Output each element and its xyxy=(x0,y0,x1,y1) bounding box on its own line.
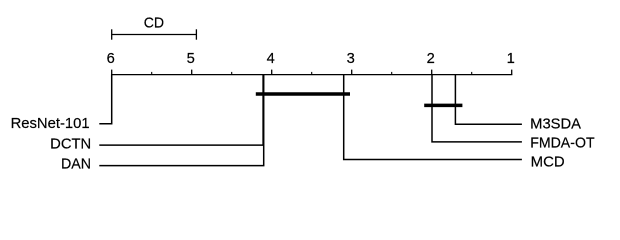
svg-text:5: 5 xyxy=(187,51,195,67)
svg-text:4: 4 xyxy=(267,51,275,67)
minor tick 1.5 xyxy=(471,72,473,75)
svg-text:FMDA-OT: FMDA-OT xyxy=(530,136,594,152)
svg-text:MCD: MCD xyxy=(531,155,565,171)
svg-text:DAN: DAN xyxy=(61,157,91,173)
major tick 5 xyxy=(191,70,193,75)
ResNet-101 connector wire xyxy=(99,75,111,124)
svg-text:M3SDA: M3SDA xyxy=(530,117,581,133)
major tick 4 xyxy=(271,70,273,75)
minor tick 5.5 xyxy=(151,72,153,75)
minor tick 3.5 xyxy=(311,72,313,75)
CD interval bracket xyxy=(112,29,197,39)
DAN connector wire xyxy=(99,75,263,166)
svg-text:6: 6 xyxy=(107,51,115,67)
minor tick 4.5 xyxy=(231,72,233,75)
major tick 1 xyxy=(511,70,513,75)
major tick 3 xyxy=(351,70,353,75)
DCTN connector wire xyxy=(99,75,263,146)
svg-text:DCTN: DCTN xyxy=(50,136,91,152)
axis line xyxy=(111,74,512,76)
M3SDA connector wire xyxy=(455,75,522,125)
clique bar 2 (FMDA-OT M3SDA) xyxy=(424,104,462,108)
svg-text:CD: CD xyxy=(144,15,164,31)
svg-text:ResNet-101: ResNet-101 xyxy=(11,116,90,132)
svg-text:2: 2 xyxy=(427,51,435,67)
svg-text:3: 3 xyxy=(347,51,355,67)
svg-text:1: 1 xyxy=(507,51,515,67)
FMDA-OT connector wire xyxy=(432,75,522,142)
major tick 2 xyxy=(431,70,433,75)
MCD connector wire xyxy=(344,75,522,160)
minor tick 2.5 xyxy=(391,72,393,75)
major tick 6 xyxy=(111,70,113,75)
clique bar 1 (DCTN DAN MCD) xyxy=(256,92,350,96)
